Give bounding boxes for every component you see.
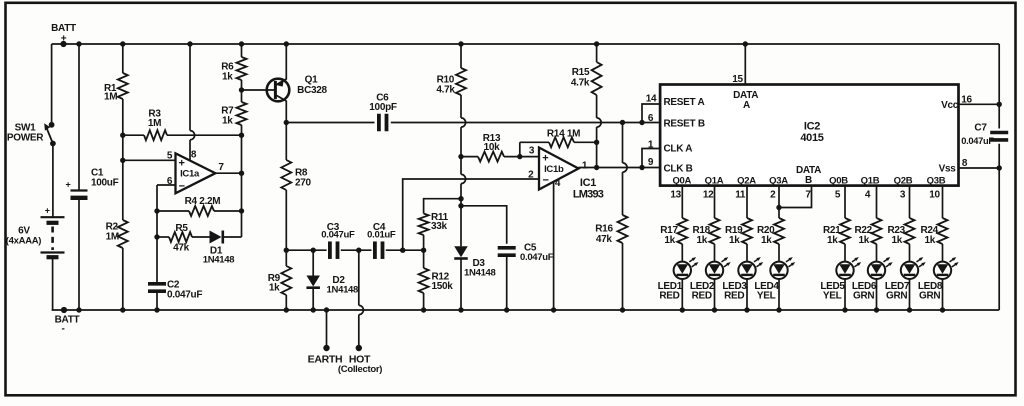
svg-text:Q3A: Q3A (769, 176, 788, 187)
svg-text:R5: R5 (175, 223, 188, 234)
diode D3 1N4148 (454, 246, 495, 312)
wire C3 line left (286, 248, 326, 253)
resistor R3 1M (123, 109, 242, 141)
wire switch to battery (52, 144, 54, 218)
op-amp IC1b (539, 148, 579, 190)
resistor R10 4.7k (436, 41, 466, 95)
svg-text:+: + (178, 157, 184, 169)
wire LED6 to ground rail (874, 279, 879, 312)
wire R8 to C3 line (284, 190, 289, 253)
svg-text:Vss: Vss (939, 163, 957, 174)
wire IC1a pin5 input (123, 150, 176, 161)
capacitor C4 0.01uF (367, 222, 396, 259)
LED LED8 GRN (918, 257, 959, 301)
svg-text:−: − (179, 181, 185, 193)
wire R22 to LED6 (876, 244, 878, 261)
svg-text:CLK A: CLK A (664, 144, 693, 155)
resistor R2 1M (106, 220, 128, 248)
svg-text:6: 6 (648, 113, 654, 124)
diode D2 1N4148 (306, 250, 358, 312)
wire LED1 to ground rail (680, 279, 685, 312)
capacitor C6 100pF (369, 93, 397, 132)
svg-text:16: 16 (961, 95, 972, 106)
resistor R17 1k (660, 218, 687, 246)
switch SW1 (7, 122, 56, 147)
svg-text:(4xAAA): (4xAAA) (6, 236, 42, 247)
capacitor C2 0.047uF (148, 279, 202, 312)
resistor R9 1k (268, 250, 292, 295)
wire LED4 to ground rail (776, 279, 781, 312)
svg-text:4.7k: 4.7k (436, 84, 455, 95)
svg-text:1M: 1M (104, 92, 117, 103)
svg-text:Q1A: Q1A (705, 176, 724, 187)
wire Q1 collector (284, 101, 289, 126)
svg-text:BATT: BATT (51, 23, 76, 34)
svg-text:Q1B: Q1B (861, 176, 880, 187)
resistor R13 10k (461, 133, 539, 162)
resistor R12 150k (419, 250, 454, 312)
wire R24 to LED8 (942, 244, 944, 261)
svg-text:1k: 1k (827, 235, 838, 246)
svg-text:+: + (61, 34, 67, 45)
svg-text:Q2B: Q2B (894, 176, 913, 187)
svg-text:Q3B: Q3B (927, 176, 946, 187)
svg-text:10k: 10k (484, 142, 501, 153)
wire Q1 base (242, 89, 275, 91)
svg-text:1k: 1k (269, 283, 280, 294)
wire LED3 to ground rail (744, 279, 749, 312)
capacitor C1 100uF (66, 41, 119, 312)
IC2 pin9 CLK B label (648, 157, 693, 175)
resistor R1 1M (104, 41, 128, 102)
svg-text:1: 1 (648, 140, 654, 151)
wire R21 to LED5 (844, 244, 846, 261)
svg-text:150k: 150k (432, 281, 454, 292)
svg-text:0.047uF: 0.047uF (961, 136, 994, 146)
wire IC2 pin14 RESET A (642, 94, 704, 123)
resistor R7 1k (221, 80, 246, 127)
svg-text:1k: 1k (664, 235, 675, 246)
wire LED8 to ground rail (940, 279, 945, 312)
wire R23 to LED7 (909, 244, 911, 261)
svg-text:Vcc: Vcc (941, 100, 959, 111)
svg-text:IC1: IC1 (580, 177, 596, 189)
svg-text:100pF: 100pF (369, 102, 397, 113)
wire battery column upper (51, 44, 53, 125)
wire LED2 to ground rail (712, 279, 717, 312)
svg-text:7: 7 (805, 190, 811, 201)
svg-text:1N4148: 1N4148 (327, 284, 358, 295)
IC2 pin 2 Q3A stub (769, 176, 788, 219)
svg-text:1k: 1k (697, 235, 708, 246)
resistor R8 270 (281, 123, 311, 191)
resistor R22 1k (854, 218, 881, 246)
wire R7 column down to D1 (239, 87, 244, 237)
resistor R21 1k (823, 218, 850, 246)
capacitor C5 0.047uF (461, 206, 554, 313)
wire top supply rail (52, 43, 1000, 45)
IC2 pin 10 Q3B stub (927, 176, 946, 219)
svg-text:9: 9 (648, 157, 654, 168)
svg-text:1N4148: 1N4148 (203, 255, 234, 266)
IC2 pin 13 Q0A stub (670, 176, 691, 219)
svg-text:0.047uF: 0.047uF (321, 230, 355, 241)
svg-text:1M: 1M (106, 232, 119, 243)
battery 6V (4xAAA) (6, 206, 65, 258)
svg-text:0.047uF: 0.047uF (520, 252, 554, 263)
resistor R4 2.2M (157, 196, 242, 216)
wire reset line left (286, 122, 374, 124)
svg-text:1: 1 (582, 161, 588, 172)
svg-text:5: 5 (835, 190, 841, 201)
svg-text:7: 7 (218, 162, 224, 173)
wire C4 to R11 junction (386, 248, 427, 253)
svg-text:4.7k: 4.7k (571, 78, 590, 89)
wire R9 to ground rail (284, 295, 289, 313)
svg-text:47k: 47k (596, 234, 613, 245)
svg-text:8: 8 (191, 150, 197, 161)
LED LED3 RED (722, 257, 763, 301)
svg-text:CLK B: CLK B (664, 164, 693, 175)
LED LED4 YEL (754, 257, 795, 301)
svg-text:RED: RED (659, 290, 679, 301)
svg-text:10: 10 (929, 190, 940, 201)
transistor Q1 BC328 (267, 75, 328, 102)
wire R1 to R2 (120, 99, 125, 220)
resistor R14 1M (520, 129, 597, 157)
capacitor C3 0.047uF (321, 222, 355, 259)
resistor R19 1k (725, 218, 752, 246)
IC2 pin6 RESET B label (648, 113, 705, 130)
svg-text:2: 2 (770, 190, 776, 201)
wire IC1a pin7 output (215, 162, 241, 173)
op-amp IC1a (176, 153, 216, 193)
svg-text:RESET B: RESET B (664, 119, 705, 130)
svg-text:11: 11 (735, 190, 746, 201)
IC2 pin 3 Q2B stub (894, 176, 913, 219)
svg-text:YEL: YEL (823, 290, 842, 301)
svg-text:6: 6 (167, 176, 173, 187)
wire IC2 pin7 DATA B (776, 186, 811, 211)
LED LED7 GRN (885, 257, 926, 301)
IC2 DATA B header label (796, 165, 821, 186)
op-amp IC1 label (573, 177, 604, 200)
wire reset line right (391, 120, 660, 125)
LED LED1 RED (658, 257, 699, 301)
svg-text:1M: 1M (148, 118, 161, 129)
svg-text:4015: 4015 (800, 132, 823, 144)
svg-text:Q0A: Q0A (672, 176, 691, 187)
svg-text:GRN: GRN (919, 290, 940, 301)
svg-text:4: 4 (865, 190, 871, 201)
svg-text:0.01uF: 0.01uF (367, 230, 396, 241)
resistor R6 1k (221, 41, 246, 82)
svg-text:5: 5 (167, 150, 173, 161)
svg-text:IC2: IC2 (804, 121, 820, 133)
svg-text:(Collector): (Collector) (338, 364, 382, 375)
svg-text:GRN: GRN (886, 290, 907, 301)
svg-text:1N4148: 1N4148 (464, 267, 495, 278)
node HOT terminal (338, 250, 382, 375)
IC2 pin 11 Q2A stub (735, 176, 756, 219)
svg-text:GRN: GRN (853, 290, 874, 301)
svg-text:15: 15 (732, 74, 743, 85)
wire IC1b pin2 input (403, 169, 539, 250)
svg-text:A: A (743, 100, 750, 111)
svg-text:1k: 1k (892, 235, 903, 246)
svg-text:2: 2 (528, 169, 534, 180)
svg-text:3: 3 (900, 190, 906, 201)
resistor R24 1k (920, 218, 947, 246)
svg-text:RESET A: RESET A (664, 97, 705, 108)
LED LED2 RED (690, 257, 731, 301)
wire R17 to LED1 (681, 244, 683, 261)
svg-text:IC1b: IC1b (544, 164, 564, 175)
wire IC2 pin15 DATA A (732, 41, 758, 111)
svg-text:4: 4 (555, 178, 561, 189)
svg-text:−: − (542, 175, 548, 187)
wire IC1b output (579, 161, 661, 172)
wire R10 down (458, 95, 465, 246)
IC2 pin 4 Q1B stub (861, 176, 880, 219)
node BATT + terminal (51, 23, 76, 47)
node EARTH terminal (308, 307, 343, 365)
svg-text:1k: 1k (222, 116, 233, 127)
wire LED7 to ground rail (907, 279, 912, 312)
wire IC1b pin4 ground (551, 178, 561, 313)
capacitor C7 0.047uF (961, 44, 1008, 310)
svg-text:1k: 1k (729, 235, 740, 246)
wire LED5 to ground rail (842, 279, 847, 312)
svg-text:0.047uF: 0.047uF (167, 289, 202, 300)
svg-text:C7: C7 (974, 123, 987, 134)
svg-text:RED: RED (692, 290, 712, 301)
wire battery to ground rail (52, 257, 54, 310)
svg-text:LM393: LM393 (573, 188, 604, 200)
svg-text:Q2A: Q2A (737, 176, 756, 187)
wire IC2 pin8 Vss (939, 158, 1002, 174)
resistor R11 33k (419, 199, 461, 251)
svg-text:100uF: 100uF (91, 178, 119, 189)
resistor R23 1k (887, 218, 914, 246)
IC2 pin 12 Q1A stub (703, 176, 724, 219)
svg-text:3: 3 (529, 146, 535, 157)
svg-text:R15: R15 (572, 67, 590, 78)
svg-text:47k: 47k (173, 243, 190, 254)
wire IC1a pin6 input (154, 176, 175, 284)
svg-text:+: + (542, 152, 548, 164)
svg-text:1k: 1k (222, 72, 233, 83)
svg-text:RED: RED (724, 290, 744, 301)
resistor R5 47k (157, 223, 210, 254)
svg-text:12: 12 (703, 190, 714, 201)
svg-text:POWER: POWER (7, 133, 44, 144)
wire IC1a pin8 supply (187, 41, 197, 160)
wire IC2 pin1 CLK A (642, 140, 692, 168)
svg-text:YEL: YEL (757, 290, 776, 301)
svg-text:BATT: BATT (55, 315, 80, 326)
svg-text:R4 2.2M: R4 2.2M (185, 196, 221, 207)
diode D1 1N4148 (203, 231, 242, 266)
IC2 pin 5 Q0B stub (829, 176, 848, 219)
wire R20 to LED4 (778, 244, 780, 261)
LED LED6 GRN (852, 257, 893, 301)
resistor R15 4.7k (571, 41, 602, 167)
svg-text:1k: 1k (925, 235, 936, 246)
svg-text:14: 14 (646, 94, 657, 105)
node BATT - terminal (55, 307, 80, 335)
IC U2 4015 body (660, 85, 958, 186)
svg-text:IC1a: IC1a (180, 169, 200, 180)
svg-text:Q0B: Q0B (829, 176, 848, 187)
wire bottom ground rail (52, 309, 1000, 311)
svg-text:33k: 33k (431, 221, 448, 232)
svg-text:1k: 1k (761, 235, 772, 246)
svg-text:-: - (61, 324, 64, 335)
resistor R20 1k (757, 218, 784, 246)
svg-text:+: + (45, 206, 50, 216)
svg-text:R14 1M: R14 1M (547, 129, 580, 140)
svg-text:+: + (66, 180, 71, 190)
svg-text:8: 8 (962, 158, 968, 169)
wire R19 to LED3 (746, 244, 748, 261)
wire Q1 emitter to rail (284, 41, 289, 79)
wire IC2 pin16 Vcc (941, 95, 1002, 111)
resistor R16 47k (595, 123, 627, 313)
svg-text:13: 13 (670, 190, 681, 201)
svg-text:1k: 1k (859, 235, 870, 246)
resistor R18 1k (692, 218, 719, 246)
svg-text:B: B (805, 175, 812, 186)
svg-text:270: 270 (295, 178, 312, 189)
LED LED5 YEL (820, 257, 861, 301)
svg-text:BC328: BC328 (297, 85, 327, 96)
wire C3 to C4 (341, 248, 372, 253)
wire R2 to ground rail (120, 248, 125, 313)
wire R18 to LED2 (714, 244, 716, 261)
